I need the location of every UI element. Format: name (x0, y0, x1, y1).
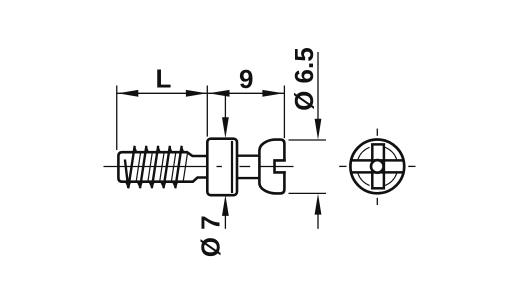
arrowheads of L and 9 (117, 90, 283, 97)
front view center tick left (339, 165, 346, 167)
front view horizontal slot lines (351, 159, 403, 162)
extension line right (9) (283, 86, 285, 139)
front view outer circle (350, 140, 404, 194)
thread crest diagonal 2 (140, 146, 146, 188)
centerline of side view (104, 166, 294, 168)
extension line left (L) (116, 86, 118, 151)
thread start partial crest line (125, 160, 128, 189)
svg-text:Ø 6.5: Ø 6.5 (289, 47, 319, 111)
thread bottom teeth (125, 181, 179, 189)
thread crest diagonal 4 (164, 146, 170, 188)
svg-text:Ø 7: Ø 7 (196, 215, 226, 257)
diameter 7 leader upper (224, 94, 226, 120)
collar inner edge line (231, 141, 233, 193)
thread top teeth (132, 145, 185, 152)
diameter 6.5 dimension line lower (317, 212, 319, 229)
neck between collar and head (237, 154, 258, 156)
front view center circle (371, 160, 384, 173)
thread crest diagonal 3 (152, 146, 158, 188)
svg-text:L: L (156, 63, 172, 93)
thread crest diagonal 5 (175, 146, 181, 188)
dimension line L (117, 92, 208, 94)
thread crest diagonal 1 (128, 146, 134, 188)
diameter 6.5 extension lines (289, 139, 327, 141)
front view inner thin arcs (358, 147, 397, 185)
thread core body with neck taper (118, 152, 207, 182)
collar flange (207, 139, 237, 196)
diameter 7 leader lower (224, 213, 226, 229)
svg-text:9: 9 (239, 64, 253, 94)
diameter 6.5 dimension line upper (317, 52, 319, 121)
screw head slot line overhang (284, 159, 286, 161)
front view center tick bottom (376, 198, 378, 205)
thread root thin lines (136, 152, 187, 181)
extension line middle (L/9) (206, 86, 208, 137)
dimension line 9 (207, 92, 284, 94)
front view center tick top (376, 129, 378, 136)
screw head side profile with slot notch (259, 140, 284, 194)
front view center tick right (408, 165, 415, 167)
front view vertical slot (372, 144, 384, 188)
